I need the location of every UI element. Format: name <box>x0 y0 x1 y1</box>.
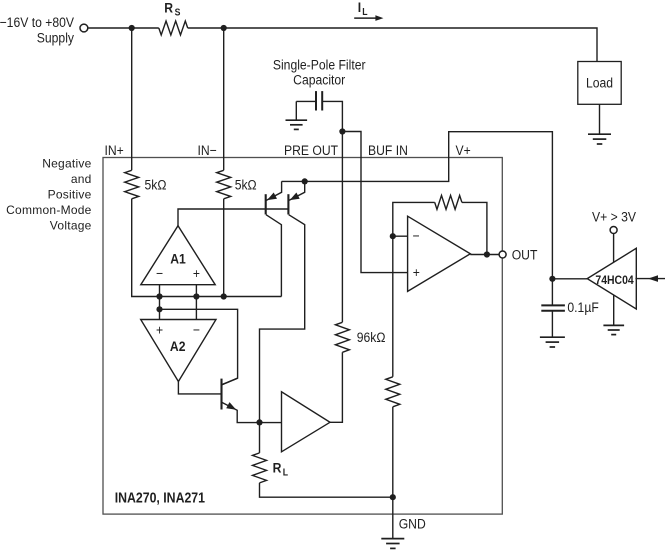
svg-text:−: − <box>193 322 200 338</box>
svg-text:−16V to +80V: −16V to +80V <box>0 14 74 30</box>
svg-text:Common-Mode: Common-Mode <box>6 203 92 217</box>
svg-text:Positive: Positive <box>48 187 92 201</box>
svg-text:Load: Load <box>586 74 613 90</box>
svg-text:Negative: Negative <box>42 156 91 170</box>
svg-text:Capacitor: Capacitor <box>293 71 346 87</box>
svg-text:−: − <box>156 265 163 281</box>
svg-text:OUT: OUT <box>512 246 538 262</box>
svg-text:74HC04: 74HC04 <box>595 274 634 287</box>
svg-text:Single-Pole Filter: Single-Pole Filter <box>273 57 366 73</box>
svg-text:V+: V+ <box>456 142 472 158</box>
svg-text:GND: GND <box>399 516 426 532</box>
svg-text:Supply: Supply <box>37 29 75 45</box>
svg-text:96kΩ: 96kΩ <box>357 329 386 345</box>
svg-text:INA270, INA271: INA270, INA271 <box>115 490 206 506</box>
svg-text:0.1µF: 0.1µF <box>567 299 598 315</box>
svg-text:+: + <box>193 265 200 281</box>
svg-text:L: L <box>283 467 289 478</box>
svg-text:PRE OUT: PRE OUT <box>284 142 338 158</box>
svg-text:IN−: IN− <box>198 142 218 158</box>
svg-text:and: and <box>71 172 92 186</box>
svg-text:+: + <box>156 322 163 338</box>
svg-text:A1: A1 <box>170 251 186 267</box>
svg-text:V+ > 3V: V+ > 3V <box>592 209 636 225</box>
svg-text:A2: A2 <box>170 338 186 354</box>
svg-text:L: L <box>362 6 368 17</box>
svg-text:−: − <box>412 228 419 244</box>
svg-text:5kΩ: 5kΩ <box>235 176 257 192</box>
svg-text:S: S <box>175 7 181 18</box>
svg-text:R: R <box>273 460 282 476</box>
svg-text:I: I <box>358 0 361 15</box>
svg-text:5kΩ: 5kΩ <box>145 176 167 192</box>
svg-text:Voltage: Voltage <box>50 219 92 233</box>
svg-text:+: + <box>413 264 420 280</box>
svg-text:IN+: IN+ <box>105 142 125 158</box>
svg-text:BUF IN: BUF IN <box>368 142 408 158</box>
svg-text:R: R <box>164 0 173 16</box>
